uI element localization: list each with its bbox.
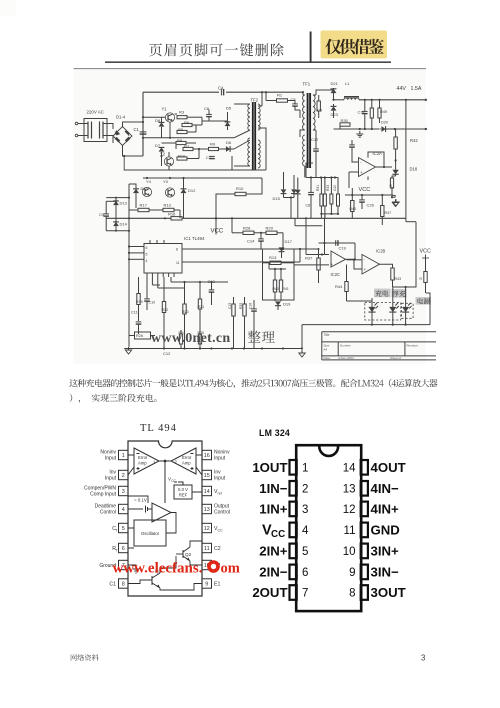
diode D20 [380, 121, 391, 132]
resistor R5 [177, 127, 187, 134]
resistor R13 [263, 255, 295, 265]
resistor R20 [198, 331, 205, 349]
U-TL494 body [128, 441, 202, 596]
pin13 label [214, 504, 230, 516]
diode D15 [273, 172, 287, 201]
svg-text:Oscillator: Oscillator [141, 531, 160, 536]
svg-text:R8: R8 [177, 138, 183, 143]
svg-text:+: + [331, 262, 334, 267]
svg-text:C5: C5 [291, 97, 297, 102]
resistor R41 [279, 269, 289, 301]
svg-text:Amp: Amp [138, 461, 147, 466]
badge 仅供借鉴 [321, 31, 388, 59]
ground output [356, 131, 363, 137]
svg-text:44V: 44V [397, 86, 407, 92]
svg-text:R5: R5 [178, 127, 184, 132]
resistor R17 [129, 203, 155, 212]
svg-text:Y1: Y1 [162, 107, 168, 112]
pin 4 box [290, 523, 297, 538]
resistor R49 [378, 100, 387, 123]
svg-text:5: 5 [302, 546, 308, 558]
svg-text:ref: ref [218, 492, 222, 496]
capacitor C1 [134, 124, 147, 134]
svg-text:2OUT: 2OUT [252, 585, 287, 600]
svg-text:1.5A: 1.5A [411, 86, 422, 92]
pin 9 box [361, 565, 368, 580]
node VCC IC2A [359, 177, 371, 194]
svg-text:16: 16 [204, 453, 210, 459]
ground LED [299, 350, 305, 357]
svg-text:3: 3 [302, 504, 308, 516]
op-amp IC2B [362, 249, 386, 275]
svg-text:R19: R19 [136, 300, 143, 304]
capacitor C9 [99, 201, 109, 231]
resistor R8 [176, 138, 186, 145]
wire pin7 ground [128, 565, 139, 573]
diode D16 [291, 175, 297, 198]
wire TF1 bottom drops [305, 163, 316, 178]
resistor R47 [381, 195, 391, 225]
wire IC2A mesh [349, 140, 392, 188]
dashed LED box 2 [402, 303, 414, 318]
svg-text:A4: A4 [324, 348, 328, 352]
svg-text:GND: GND [371, 523, 400, 538]
svg-text:R29: R29 [266, 226, 274, 231]
diode D12 [181, 178, 197, 218]
wire IC2C to IC2B [347, 259, 363, 269]
pin number 4 [302, 525, 309, 537]
wire right bus A [405, 100, 407, 222]
pin16 label [214, 450, 230, 462]
svg-text:+: + [364, 267, 367, 272]
wire TL494 bottom mesh [152, 277, 228, 305]
pin 6 [119, 543, 129, 552]
svg-text:14: 14 [204, 489, 210, 495]
svg-text:9: 9 [205, 582, 208, 588]
resistor R26 [129, 332, 155, 339]
transistor Y1 [162, 107, 175, 123]
svg-text:4IN−: 4IN− [371, 481, 400, 496]
pin label 1OUT [252, 460, 287, 475]
svg-text:4: 4 [146, 259, 148, 263]
svg-text:8: 8 [122, 582, 125, 588]
svg-text:2IN−: 2IN− [259, 565, 288, 580]
resistor R32 [323, 178, 326, 219]
svg-text:IC1 TL494: IC1 TL494 [184, 236, 205, 241]
resistor R48 [370, 100, 373, 129]
capacitor C18 [358, 100, 368, 129]
pin number 6 [302, 567, 308, 579]
svg-text:C1: C1 [109, 582, 116, 588]
TL494 title [140, 423, 177, 434]
wire mid rail y170 [124, 169, 266, 171]
svg-text:R30: R30 [341, 118, 349, 123]
svg-text:IC2B: IC2B [376, 249, 386, 254]
components C15 R34 R35 [228, 297, 257, 349]
resistor R6 [182, 120, 192, 127]
svg-text:R16: R16 [168, 212, 176, 217]
node VCC right [420, 249, 431, 265]
svg-text:VCC: VCC [211, 229, 224, 235]
svg-text:D14: D14 [120, 222, 128, 227]
diode D18 [392, 160, 417, 174]
svg-text:R10: R10 [178, 154, 186, 159]
resistor R33 [326, 178, 333, 214]
resistor R16 [168, 212, 182, 221]
svg-text:8: 8 [349, 588, 355, 600]
header underline [105, 61, 391, 63]
diode D21 [331, 81, 339, 93]
svg-text:4: 4 [122, 507, 125, 513]
diode D17 [279, 239, 293, 258]
capacitor C14 [247, 232, 264, 249]
svg-text:D20: D20 [381, 121, 388, 125]
svg-text:15: 15 [204, 473, 210, 479]
footer 网络资料 [71, 654, 99, 661]
pin 9 [202, 579, 212, 588]
svg-text:Y3: Y3 [163, 179, 169, 184]
svg-text:C17: C17 [311, 137, 319, 142]
svg-text:1IN−: 1IN− [259, 481, 288, 496]
svg-text:IC6: IC6 [316, 109, 322, 113]
resistor R34 [333, 178, 340, 214]
LM324 title [259, 428, 290, 438]
pin9 label [214, 582, 220, 588]
svg-text:4-Dec-2004: 4-Dec-2004 [338, 356, 354, 360]
svg-text:IC2C: IC2C [331, 272, 341, 277]
svg-text:R13: R13 [164, 203, 172, 208]
capacitor C5 [291, 97, 301, 110]
pin15 label [214, 470, 226, 482]
wire long rail y218 [106, 217, 406, 219]
wire mid rail y178 [143, 177, 262, 179]
svg-text:C10: C10 [149, 301, 156, 305]
svg-text:5: 5 [122, 526, 125, 532]
node 220V AC label [87, 110, 104, 115]
svg-text:12: 12 [343, 504, 356, 516]
svg-text:D10: D10 [141, 186, 149, 191]
watermark www.0net.cn 整理 [151, 331, 275, 346]
pin 2 box [290, 481, 297, 496]
pin number 11 [344, 525, 356, 537]
pin 8 [119, 579, 129, 588]
svg-text:10: 10 [343, 546, 356, 558]
LED DS2 [389, 298, 399, 325]
pin 10 [202, 560, 212, 569]
pin label GND [371, 523, 400, 538]
svg-text:D12: D12 [188, 188, 196, 193]
svg-text:R26: R26 [136, 334, 143, 338]
pin 15 [202, 470, 212, 479]
svg-text:Title: Title [324, 333, 330, 337]
U-LM324 body [296, 445, 361, 611]
node VCC internal [168, 477, 183, 486]
svg-text:C11: C11 [131, 311, 138, 315]
svg-text:www.0net.cn: www.0net.cn [151, 331, 231, 346]
svg-text:TF2: TF2 [251, 98, 259, 103]
op-amp IC2A [359, 151, 383, 177]
svg-text:D21: D21 [331, 81, 339, 86]
wire D15 D16 join [284, 196, 295, 218]
pin 6 box [290, 565, 297, 580]
svg-text:R44: R44 [335, 284, 343, 289]
diode D24 [295, 178, 301, 219]
bridge rectifier D1-4 [113, 114, 144, 145]
wire R40 mesh [269, 263, 286, 270]
resistor R43b [380, 264, 402, 287]
resistor R31 [316, 178, 323, 219]
svg-text:Date:: Date: [324, 356, 331, 360]
pin number 7 [302, 588, 308, 600]
svg-text:Input: Input [105, 476, 117, 482]
svg-text:Control: Control [214, 510, 230, 516]
wire bottom rail C12 [124, 347, 302, 349]
svg-text:R28: R28 [243, 226, 251, 231]
wire left bus x129 [128, 184, 130, 347]
svg-text:7: 7 [302, 588, 308, 600]
svg-text:R35: R35 [239, 303, 243, 309]
pin12 label [214, 526, 223, 533]
capacitor C11 [131, 311, 141, 335]
resistor R10b [177, 154, 187, 161]
svg-text:13: 13 [343, 484, 356, 496]
pin label VCC [262, 523, 285, 541]
resistor R42 [394, 129, 418, 161]
transistor Q1 [128, 556, 202, 590]
capacitor C4 [218, 86, 224, 96]
resistor R1 [266, 93, 295, 103]
pin label 2IN&#8722; [259, 565, 288, 580]
pin10 label [214, 563, 220, 569]
svg-text:TL 494: TL 494 [140, 423, 177, 434]
pin 11 box [361, 523, 368, 538]
svg-text:C20: C20 [333, 185, 337, 191]
svg-text:R43: R43 [395, 277, 402, 281]
svg-text:R40: R40 [273, 287, 279, 291]
svg-text:5: 5 [146, 252, 148, 256]
svg-text:om: om [221, 561, 240, 577]
svg-text:R41: R41 [283, 287, 289, 291]
pin 14 [202, 486, 212, 495]
resistor R44 [335, 265, 348, 302]
pin8 label [109, 582, 116, 588]
svg-text:11: 11 [344, 525, 356, 537]
wire IC2A lower mesh [345, 187, 392, 196]
pin1 label [100, 450, 116, 462]
pin 5 box [290, 544, 297, 559]
svg-text:4OUT: 4OUT [371, 460, 406, 475]
svg-text:C8: C8 [306, 204, 311, 208]
header separator bar [310, 32, 312, 63]
svg-text:D19: D19 [283, 302, 291, 307]
svg-text:6: 6 [146, 246, 148, 250]
pin number 8 [349, 588, 355, 600]
pin number 5 [302, 546, 308, 558]
comparator deadtime [128, 496, 171, 522]
pin 11 [202, 543, 212, 552]
svg-text:4IN+: 4IN+ [371, 502, 400, 517]
ground IC2A [392, 195, 399, 206]
resistor R28 [232, 226, 261, 235]
wire output second rail [334, 128, 427, 130]
svg-text:Number: Number [340, 344, 351, 348]
pin label 4IN+ [371, 502, 400, 517]
wire LED feeds [347, 222, 431, 325]
label 充电 浮充 [374, 289, 407, 298]
diode D6 [226, 140, 232, 152]
svg-text:D13: D13 [120, 201, 128, 206]
pin2 label [105, 470, 117, 482]
resistor R24 [179, 330, 186, 349]
svg-text:+: + [360, 170, 363, 175]
svg-text:D15: D15 [273, 196, 281, 201]
resistor R10 [216, 178, 262, 218]
label 电源 [416, 297, 432, 305]
svg-text:R43: R43 [350, 207, 356, 211]
svg-text:R33: R33 [326, 185, 330, 191]
wire rail y177.5 [306, 176, 338, 178]
pin 4 [119, 504, 129, 513]
svg-text:R21: R21 [198, 305, 205, 309]
svg-text:R31: R31 [316, 185, 320, 191]
svg-text:R13: R13 [269, 255, 277, 260]
svg-text:C15: C15 [228, 303, 232, 309]
svg-text:6: 6 [122, 546, 125, 552]
svg-text:D8: D8 [155, 118, 161, 123]
svg-text:R37: R37 [305, 256, 313, 261]
wire TL494 out right [182, 218, 355, 262]
resistor R40 [273, 269, 279, 301]
LED DS3 [402, 287, 412, 325]
svg-text:3IN−: 3IN− [371, 565, 400, 580]
wire TL494 pins left [128, 245, 141, 260]
svg-text:Comp Input: Comp Input [90, 492, 116, 498]
svg-text:11: 11 [204, 546, 210, 552]
transistor Q2 [176, 541, 202, 565]
svg-text:R1: R1 [277, 93, 283, 98]
svg-text:3OUT: 3OUT [371, 585, 406, 600]
capacitor C7 [206, 155, 215, 160]
pin label 3OUT [371, 585, 406, 600]
scan background [74, 69, 427, 364]
pin 7 [119, 560, 129, 569]
wire filter to bridge [107, 124, 113, 144]
svg-text:LM 324: LM 324 [259, 428, 290, 438]
inductor L1 [344, 81, 359, 100]
svg-text:1IN+: 1IN+ [259, 502, 288, 517]
pin label 1IN+ [259, 502, 288, 517]
svg-text:C14: C14 [247, 239, 255, 244]
wire osc pins [128, 513, 176, 549]
svg-text:3: 3 [122, 489, 125, 495]
wire D13 D14 loop [106, 197, 130, 232]
diode D13 [113, 198, 128, 206]
svg-text:3: 3 [421, 654, 425, 663]
diode D14 [113, 205, 128, 231]
wire TF2 lower box [124, 156, 266, 170]
diode D23 [331, 104, 339, 118]
pin14 label [214, 489, 222, 496]
svg-text:Error: Error [138, 455, 148, 460]
capacitor C8 [306, 178, 314, 219]
wire comparator box [231, 217, 294, 300]
svg-text:VCC: VCC [359, 187, 371, 193]
header text 页眉页脚可一键删除 [149, 43, 284, 56]
svg-text:L1: L1 [345, 81, 350, 86]
wire bridge minus [123, 145, 144, 157]
resistor R9 [209, 142, 219, 151]
op-amp LM324 pinout [252, 428, 405, 611]
svg-text:14: 14 [343, 463, 356, 475]
capacitor C17b [313, 134, 319, 163]
pin7 label [99, 563, 116, 569]
error amp 2 [171, 448, 196, 474]
schematic top border [74, 68, 427, 70]
pin 12 box [361, 502, 368, 517]
svg-text:C26: C26 [367, 203, 375, 208]
svg-text:1: 1 [122, 453, 125, 459]
resistor R13a [155, 203, 180, 219]
resistor R3 [177, 110, 187, 119]
svg-text:R22: R22 [162, 308, 169, 312]
svg-text:220V AC: 220V AC [87, 110, 104, 115]
svg-text:E1: E1 [214, 582, 220, 588]
svg-text:D18: D18 [410, 167, 418, 172]
pin label 2IN+ [259, 544, 288, 559]
resistor R22 [162, 277, 169, 349]
resistor R19 [136, 277, 143, 321]
pin6 label [112, 546, 118, 553]
svg-text:Error: Error [182, 455, 192, 460]
capacitor C13 [208, 279, 216, 300]
LED DS1 [368, 298, 378, 325]
svg-text:D1-4: D1-4 [116, 114, 126, 119]
svg-text:R7: R7 [184, 144, 190, 149]
op-amp IC2C [331, 251, 346, 277]
pin label 1IN&#8722; [259, 481, 288, 496]
svg-text:2IN+: 2IN+ [259, 544, 288, 559]
svg-text:Control: Control [100, 510, 116, 516]
svg-text:11: 11 [176, 261, 180, 265]
svg-text:5.0 V: 5.0 V [178, 487, 188, 492]
svg-text:R9: R9 [210, 142, 216, 147]
resistor R43 [350, 188, 356, 218]
error amp 1 [134, 448, 159, 474]
svg-text:R23: R23 [182, 310, 189, 314]
pin number 9 [349, 567, 355, 579]
pin 1 [119, 450, 129, 459]
pin label 3IN+ [371, 544, 400, 559]
pin 1 box [290, 460, 297, 475]
svg-text:Amp: Amp [182, 461, 191, 466]
EMI filter FL1 [84, 119, 107, 142]
svg-text:C2: C2 [214, 546, 221, 552]
oscillator box [134, 520, 166, 546]
transistor Y4 [163, 179, 175, 197]
transformer TF2 [234, 91, 266, 170]
svg-text:Revision: Revision [407, 344, 419, 348]
svg-text:6: 6 [302, 567, 308, 579]
pin 7 box [290, 585, 297, 600]
pin 16 [202, 450, 212, 459]
svg-text:1: 1 [302, 463, 308, 475]
svg-text:D6: D6 [226, 140, 232, 145]
pin 14 box [361, 460, 368, 475]
svg-text:R47: R47 [385, 211, 392, 215]
wire rail y225.8 [295, 218, 322, 226]
transistor Y3 [142, 179, 151, 197]
svg-text:3IN+: 3IN+ [371, 544, 400, 559]
